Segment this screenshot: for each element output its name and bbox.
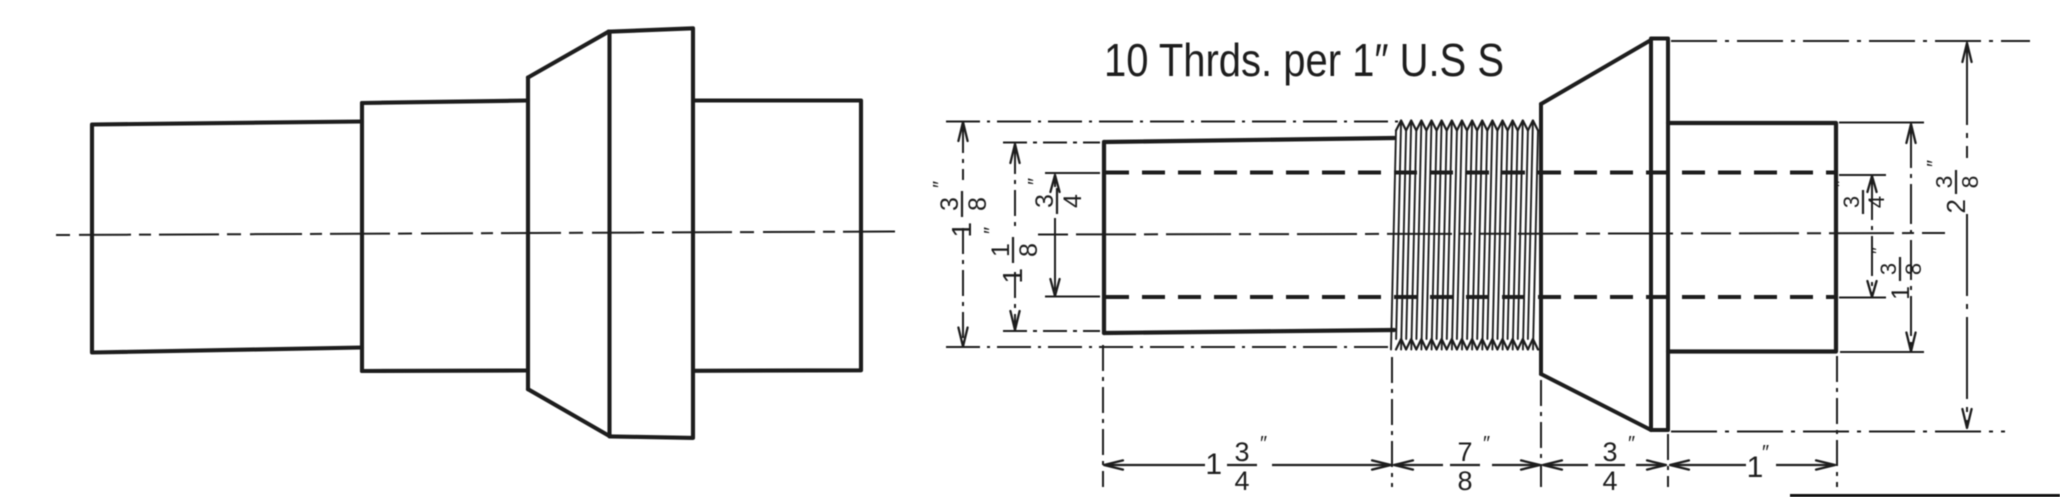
flange rim (right view): [1651, 39, 1668, 431]
dimension 1 inch bottom: [1670, 460, 1689, 469]
scan artifact black bar bottom right: [1790, 494, 2060, 497]
svg-text:1: 1: [1887, 286, 1915, 300]
dimension 1-3/4 bottom: [1104, 460, 1123, 469]
svg-text:7: 7: [1457, 437, 1472, 467]
extension line below body left end: [1102, 345, 1104, 487]
extension line thread OD bottom: [946, 346, 1392, 348]
cone base line (right view): [1539, 104, 1543, 374]
extension line thread OD top: [946, 121, 1402, 123]
svg-text:3: 3: [1931, 176, 1957, 189]
right cylinder (right view): [1668, 123, 1836, 352]
extension line flange bottom: [1671, 431, 2005, 433]
hidden hole line lower: [1106, 295, 1836, 299]
dimension 2-3/8 overall: [1962, 43, 1971, 62]
svg-text:4: 4: [1234, 466, 1249, 496]
label 1 3/4 inch: [1205, 433, 1267, 496]
cone base circle edge (pictorial): [526, 78, 530, 390]
svg-text:3: 3: [1876, 263, 1901, 275]
svg-text:″: ″: [1628, 433, 1635, 455]
label 3/4 inch right: [1831, 180, 1889, 214]
right view center line: [1038, 233, 1945, 235]
svg-text:1: 1: [997, 268, 1028, 284]
dimension 1-3/8 left: [958, 122, 967, 141]
extension line body bottom: [1003, 330, 1100, 332]
extension line hole bottom left: [1045, 296, 1100, 298]
svg-text:″: ″: [1483, 433, 1490, 455]
extension line body top: [1003, 142, 1100, 144]
label 7/8 inch: [1450, 433, 1490, 496]
label 2 3/8 inch: [1924, 160, 1983, 214]
extension line below thread end: [1540, 380, 1542, 487]
dimension 3/4 bottom: [1543, 460, 1562, 469]
dimension 1-3/8 right: [1906, 124, 1915, 143]
extension line flange top: [1671, 40, 2030, 42]
svg-text:″: ″: [1762, 442, 1769, 464]
left view center line: [56, 232, 895, 236]
extension line right cyl top: [1839, 122, 1924, 124]
threaded section: [1396, 121, 1538, 131]
label 1 3/8 inch left: [930, 181, 992, 238]
svg-text:″: ″: [981, 227, 1003, 234]
body left end: [1102, 142, 1106, 333]
svg-text:8: 8: [1957, 176, 1983, 189]
svg-text:8: 8: [1457, 466, 1472, 496]
dimension 3/4 left: [1050, 175, 1059, 192]
svg-text:1: 1: [946, 222, 977, 238]
extension line below right end: [1836, 356, 1838, 487]
svg-text:3: 3: [1602, 437, 1617, 467]
svg-text:4: 4: [1602, 466, 1617, 496]
svg-text:8: 8: [1015, 243, 1043, 257]
extension line hole top left: [1045, 172, 1100, 174]
label 1 1/8 inch: [981, 227, 1043, 284]
svg-text:″: ″: [930, 181, 952, 188]
body top edge: [1104, 138, 1394, 142]
svg-text:2: 2: [1941, 199, 1971, 213]
flange block front edge (pictorial): [607, 32, 611, 437]
svg-text:8: 8: [1901, 263, 1926, 275]
extension line below thread start: [1391, 357, 1393, 487]
extension line right cyl bottom: [1840, 351, 1924, 353]
dimension 3/4 right: [1867, 176, 1876, 192]
svg-text:″: ″: [1868, 247, 1890, 254]
extension line hole top right: [1839, 174, 1886, 176]
svg-text:″: ″: [1831, 180, 1853, 187]
second cylinder of pictorial view: [360, 103, 364, 371]
svg-text:1: 1: [1205, 448, 1222, 481]
svg-text:″: ″: [1025, 178, 1047, 185]
right cylinder of pictorial view: [693, 101, 861, 371]
body bottom edge: [1104, 330, 1394, 333]
dimension 7/8 bottom: [1394, 460, 1413, 469]
svg-text:1: 1: [987, 243, 1015, 257]
label 3/4 inch left: [1025, 178, 1087, 214]
svg-text:1: 1: [1747, 451, 1764, 484]
svg-text:4: 4: [1864, 196, 1889, 208]
svg-text:″: ″: [1924, 160, 1946, 167]
label 1 3/8 inch right: [1868, 247, 1926, 300]
svg-text:3: 3: [1234, 437, 1249, 467]
cone slant edges (pictorial): [528, 32, 609, 78]
svg-text:4: 4: [1059, 194, 1087, 208]
cone slant edges (right view): [1541, 40, 1651, 104]
left cylinder of pictorial view: [92, 122, 362, 353]
svg-text:10 Thrds. per 1″ U.S S: 10 Thrds. per 1″ U.S S: [1104, 34, 1504, 86]
svg-text:8: 8: [964, 197, 992, 211]
svg-text:3: 3: [936, 197, 964, 211]
extension line hole bottom right: [1839, 297, 1886, 299]
flange block outline (pictorial): [609, 28, 694, 438]
dimension 1-1/8: [1010, 144, 1019, 163]
svg-text:″: ″: [1260, 433, 1267, 455]
hidden hole line upper: [1106, 170, 1836, 174]
svg-text:3: 3: [1031, 194, 1059, 208]
svg-text:3: 3: [1839, 196, 1864, 208]
extension line below flange face: [1667, 434, 1669, 487]
label 3/4 inch bottom: [1595, 433, 1635, 496]
